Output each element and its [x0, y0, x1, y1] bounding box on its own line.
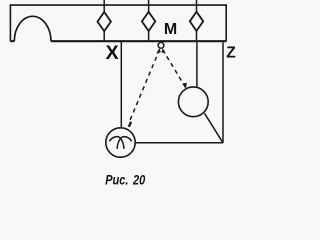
wire hanger 1 — [103, 0, 105, 41]
wire: cord from beam to circle — [196, 41, 198, 87]
thick final dash at lamp — [129, 122, 131, 127]
big circle — [178, 87, 208, 117]
caption — [105, 172, 145, 187]
node M pivot circle — [158, 42, 164, 48]
svg-text:Z: Z — [226, 45, 236, 62]
wire: bottom horizontal line — [135, 142, 223, 144]
lamp diamond 1 — [98, 12, 111, 31]
wire: diagonal from circle to corner — [205, 113, 224, 143]
wire X: cord from beam to lamp — [120, 41, 122, 128]
arrowhead up-left at node — [156, 48, 161, 53]
svg-text:X: X — [106, 42, 119, 64]
arrowhead at big circle — [182, 83, 187, 89]
lamp diamond 3 — [190, 12, 203, 31]
svg-text:M: M — [164, 21, 177, 38]
lamp circle — [106, 128, 135, 157]
arrowhead up-right at node — [161, 48, 166, 53]
dashed sight line to circle — [163, 50, 186, 88]
beam bottom edge — [10, 40, 226, 42]
lamp diamond 2 — [142, 12, 155, 31]
wire: right vertical line — [222, 42, 224, 143]
lamp filament right curve — [117, 137, 132, 149]
arch opening — [14, 16, 51, 41]
beam with arch — [10, 5, 226, 41]
wire hanger 3 — [196, 0, 198, 41]
lamp filament left curve — [109, 137, 124, 149]
svg-text:Рис. 20: Рис. 20 — [105, 172, 145, 187]
dashed sight line to lamp — [130, 50, 160, 121]
wire hanger 2 — [148, 0, 150, 41]
